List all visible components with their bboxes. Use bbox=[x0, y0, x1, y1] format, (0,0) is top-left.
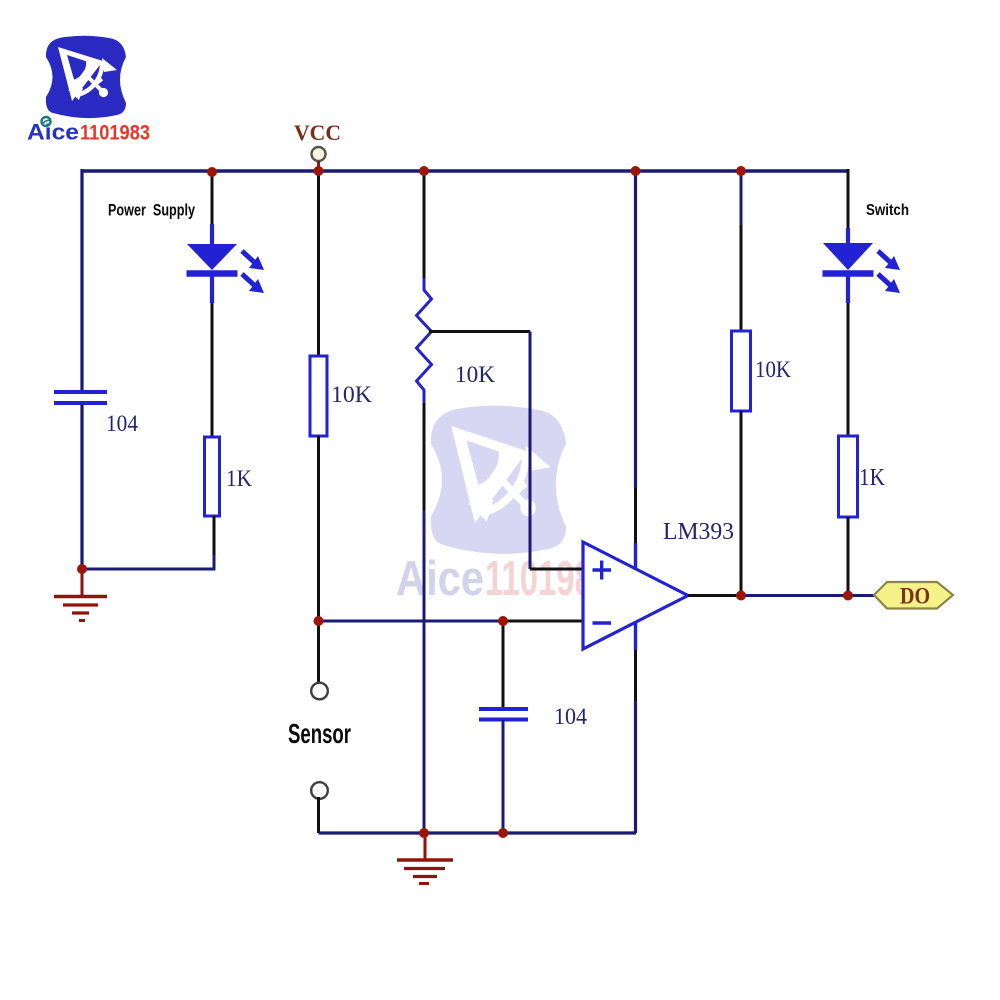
sensor terminal 1 bbox=[311, 683, 328, 700]
ground (left) bbox=[81, 570, 84, 596]
LED power (anode stem) bbox=[210, 224, 214, 245]
node minus-cap dot bbox=[498, 616, 508, 626]
node ground-left dot bbox=[77, 564, 87, 574]
wire VCC to trimmer bbox=[423, 171, 426, 278]
logo bbox=[46, 36, 126, 118]
node VCC terminal dot bbox=[314, 166, 324, 176]
sensor terminal 2 bbox=[311, 782, 328, 799]
LED switch triangle bbox=[823, 243, 873, 270]
wire left branch down bbox=[80, 169, 83, 391]
svg-text:1101983: 1101983 bbox=[80, 122, 150, 145]
svg-text:10K: 10K bbox=[331, 382, 372, 407]
svg-text:Power Supply: Power Supply bbox=[108, 201, 195, 220]
watermark bbox=[431, 406, 566, 554]
node minus-sensor dot bbox=[314, 616, 324, 626]
wire LED to 1K bbox=[847, 303, 850, 436]
wire 1K to ground rail bbox=[213, 516, 216, 555]
svg-text:Sensor: Sensor bbox=[288, 718, 351, 749]
wire VCC rail right corner down bbox=[847, 169, 850, 228]
svg-text:1K: 1K bbox=[859, 465, 886, 491]
wire minus node to sensor terminal 1 bbox=[317, 621, 320, 682]
node rail-ground dot bbox=[419, 828, 429, 838]
op-amp U1 LM393 bbox=[583, 542, 688, 649]
svg-text:Switch: Switch bbox=[866, 202, 909, 219]
node trimmer dot bbox=[419, 166, 429, 176]
wire trimmer to bottom rail bbox=[423, 403, 426, 510]
ground (bottom) bbox=[424, 834, 427, 859]
logo i-dot swirl bbox=[42, 117, 51, 126]
node output-1K dot bbox=[843, 591, 853, 601]
LED switch (anode stem) bbox=[846, 228, 850, 245]
svg-text:LM393: LM393 bbox=[663, 519, 734, 545]
svg-text:1K: 1K bbox=[226, 466, 252, 491]
capacitor 104 (left) bbox=[54, 392, 107, 403]
svg-text:10K: 10K bbox=[755, 357, 791, 382]
LED power light arrows bbox=[242, 251, 264, 293]
LED power cathode bar bbox=[187, 270, 238, 277]
op-amp power stubs bbox=[634, 543, 637, 650]
svg-text:104: 104 bbox=[106, 411, 138, 436]
LED power cathode stem bbox=[210, 274, 214, 303]
wire op-amp output bbox=[688, 594, 741, 597]
svg-text:DO: DO bbox=[900, 584, 930, 609]
resistor 10K (pullup) bbox=[732, 331, 751, 411]
op-amp plus sign bbox=[593, 561, 612, 580]
LED power triangle bbox=[187, 244, 237, 270]
wire 1K to output bbox=[847, 517, 850, 596]
wire VCC to sensor divider resistor bbox=[317, 171, 320, 356]
VCC terminal bbox=[312, 147, 326, 161]
node pullup dot bbox=[736, 166, 746, 176]
wire pullup to output bbox=[740, 411, 743, 596]
svg-text:Aice: Aice bbox=[27, 120, 79, 145]
resistor 10K (sensor divider) bbox=[310, 356, 327, 436]
svg-text:10K: 10K bbox=[455, 362, 495, 387]
capacitor 104 (filter) bbox=[479, 709, 528, 720]
wire top rail VCC bbox=[82, 169, 848, 173]
wire minus input line bbox=[319, 620, 504, 623]
svg-text:Aice: Aice bbox=[396, 552, 484, 606]
wire VCC rail to power LED bbox=[211, 171, 214, 224]
port DO bbox=[874, 582, 953, 609]
wire bottom ground rail bbox=[319, 831, 637, 834]
wire VCC terminal stem bbox=[317, 161, 320, 170]
node output-pullup dot bbox=[736, 591, 746, 601]
wire VCC to op-amp power (crosses behind op-amp) bbox=[634, 171, 637, 488]
wire minus line to capacitor 104 bbox=[502, 621, 505, 708]
svg-text:104: 104 bbox=[554, 704, 587, 729]
LED switch light arrows bbox=[878, 251, 900, 293]
op-amp minus sign bbox=[593, 621, 612, 625]
svg-text:VCC: VCC bbox=[294, 120, 341, 145]
wire LED to resistor 1K bbox=[211, 303, 214, 437]
node power LED dot bbox=[207, 167, 217, 177]
wire capacitor to bottom rail bbox=[502, 720, 505, 833]
resistor 1K (left) bbox=[205, 437, 220, 516]
watermark text bbox=[396, 552, 611, 606]
wire 10K to minus node bbox=[317, 436, 320, 621]
node rail-cap dot bbox=[498, 828, 508, 838]
resistor 1K (switch) bbox=[839, 436, 858, 517]
LED switch cathode stem bbox=[846, 274, 850, 303]
node opamp VCC dot bbox=[631, 166, 641, 176]
trimmer resistor 10K zigzag bbox=[417, 278, 432, 403]
wire sensor terminal 2 to bottom rail bbox=[317, 797, 320, 833]
wire VCC to pullup 10K bbox=[740, 171, 743, 225]
LED switch cathode bar bbox=[823, 270, 874, 277]
wire capacitor to ground node bbox=[80, 404, 83, 569]
wire trimmer tap to plus input bbox=[429, 330, 530, 333]
wire ground node to 1K bottom bbox=[82, 517, 214, 569]
